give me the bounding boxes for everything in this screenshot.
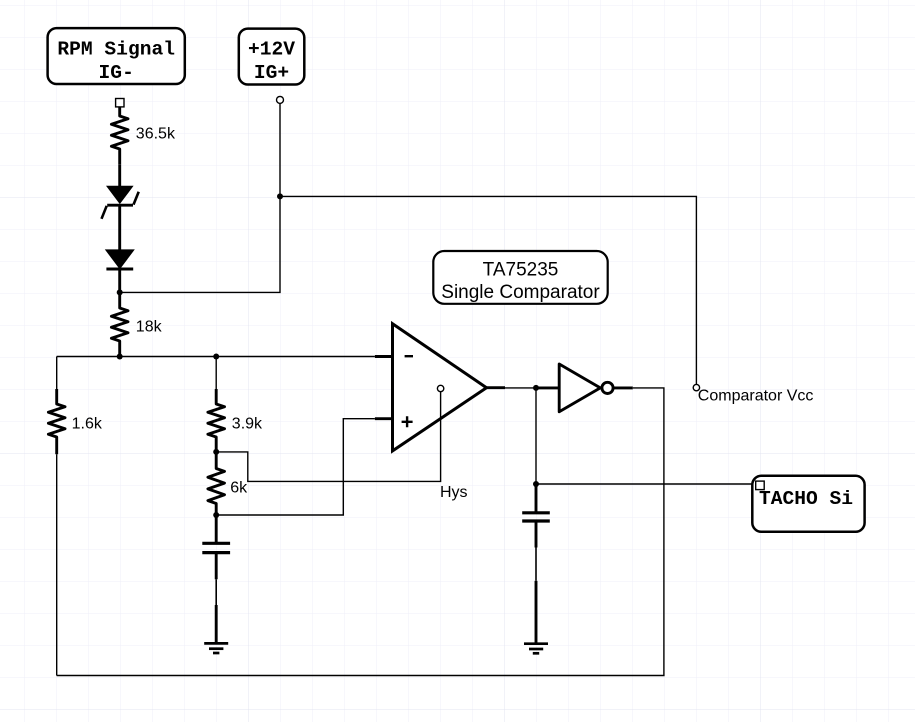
svg-text:36.5k: 36.5k [136, 125, 176, 142]
svg-text:+12V: +12V [248, 38, 295, 60]
label box TACHO Si [752, 476, 864, 532]
node E (3.9k / 6k junction dot) [213, 449, 219, 455]
svg-text:TA75235: TA75235 [483, 260, 559, 281]
capacitor C1 [202, 515, 230, 579]
svg-text:18k: 18k [136, 318, 163, 335]
resistor 1.6k [48, 357, 65, 455]
inverter U2 [536, 364, 633, 412]
svg-text:RPM Signal: RPM Signal [57, 39, 175, 61]
node C (18k / bus junction dot) [117, 354, 123, 360]
wire bus to op-amp minus input [57, 356, 375, 358]
terminal circle Comparator Vcc [693, 384, 699, 390]
svg-text:3.9k: 3.9k [232, 416, 263, 433]
svg-text:1.6k: 1.6k [72, 416, 103, 433]
wire node H to TACHO terminal [536, 483, 756, 485]
label Hys [440, 484, 468, 501]
resistor 3.9k [208, 357, 225, 452]
wire 1.6k down to bottom bus [56, 454, 58, 675]
resistor 36.5k [111, 107, 128, 165]
node A (+12V junction dot) [277, 193, 283, 199]
diode D2 [106, 251, 133, 293]
ground GND2 [524, 644, 548, 654]
label box +12V IG+ [239, 29, 304, 85]
wire node A down to zener junction [120, 196, 280, 292]
svg-text:IG+: IG+ [254, 62, 289, 84]
svg-text:Comparator Vcc: Comparator Vcc [698, 388, 814, 405]
node F (6k / capacitor junction dot) [213, 512, 219, 518]
node B (zener / 18k junction dot) [117, 289, 123, 295]
wire op-amp output to node G [505, 387, 536, 389]
wire Hys: node E to hysteresis terminal [216, 392, 440, 482]
resistor 18k [111, 292, 128, 356]
wire C2 to ground [535, 548, 537, 644]
value label 36.5k [136, 125, 176, 142]
label Comparator Vcc [698, 388, 814, 405]
svg-text:Hys: Hys [440, 484, 468, 501]
value label 1.6k [72, 416, 103, 433]
svg-text:6k: 6k [230, 479, 248, 496]
wire node A to Comparator Vcc terminal [280, 196, 696, 384]
svg-text:IG-: IG- [99, 62, 134, 84]
terminal circle Hys [437, 385, 443, 391]
terminal square below RPM box [116, 99, 124, 107]
resistor 6k [208, 452, 225, 515]
wire node G down to node H [535, 388, 537, 484]
value label 18k [136, 318, 163, 335]
node D (3.9k branch junction dot) [213, 354, 219, 360]
wire C1 to ground [215, 579, 217, 643]
svg-text:Single Comparator: Single Comparator [441, 282, 600, 303]
op-amp U1 [375, 324, 505, 451]
label box TA75235 Single Comparator [433, 251, 607, 304]
terminal square TACHO [756, 481, 765, 490]
capacitor C2 [522, 484, 550, 548]
value label 6k [230, 479, 248, 496]
node H (capacitor / TACHO junction dot) [533, 481, 539, 487]
wire node F to op-amp plus input [216, 419, 375, 515]
ground GND1 [204, 643, 228, 653]
terminal circle below +12V box [277, 96, 284, 103]
node G (output junction dot) [533, 385, 539, 391]
svg-text:TACHO Si: TACHO Si [759, 488, 853, 510]
label box RPM Signal IG- [48, 28, 185, 84]
wire from +12V terminal down to node A [279, 103, 281, 196]
value label 3.9k [232, 416, 263, 433]
zener diode D1 [102, 164, 139, 250]
wire inverter output right edge and bottom bus [57, 388, 664, 676]
